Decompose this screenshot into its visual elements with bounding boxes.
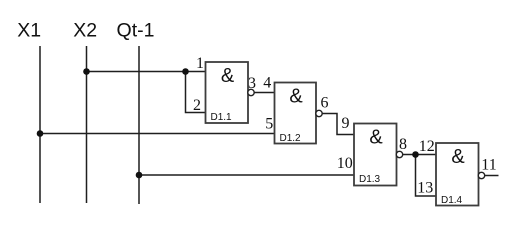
svg-text:D1.2: D1.2 (280, 133, 302, 144)
svg-text:D1.4: D1.4 (441, 195, 463, 206)
svg-text:D1.3: D1.3 (359, 174, 381, 185)
svg-text:8: 8 (399, 136, 407, 153)
svg-text:&: & (451, 146, 465, 168)
svg-text:X2: X2 (73, 20, 97, 42)
svg-text:1: 1 (196, 55, 204, 72)
svg-text:10: 10 (337, 155, 353, 172)
svg-text:6: 6 (321, 95, 329, 112)
svg-text:9: 9 (342, 115, 350, 132)
svg-text:&: & (289, 86, 303, 108)
svg-text:&: & (221, 65, 235, 87)
svg-text:5: 5 (265, 116, 273, 133)
svg-text:13: 13 (417, 180, 433, 197)
svg-text:12: 12 (419, 138, 435, 155)
svg-text:&: & (369, 127, 383, 149)
svg-text:Qt-1: Qt-1 (117, 20, 155, 42)
svg-text:4: 4 (263, 75, 271, 92)
svg-text:X1: X1 (17, 20, 41, 42)
svg-text:3: 3 (248, 75, 256, 92)
svg-text:2: 2 (193, 97, 201, 114)
svg-text:D1.1: D1.1 (211, 112, 233, 123)
svg-text:11: 11 (481, 157, 496, 174)
